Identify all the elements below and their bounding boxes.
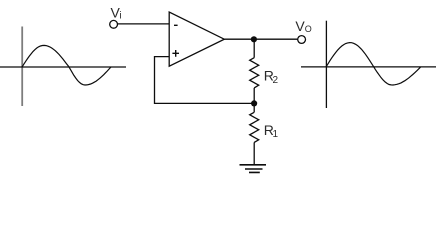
input waveform vertical axis xyxy=(21,27,23,107)
svg-text:O: O xyxy=(305,24,312,34)
resistor R2 xyxy=(250,58,259,88)
wire op-amp output to Vo xyxy=(224,38,297,40)
svg-text:1: 1 xyxy=(273,129,279,140)
wire feedback to non-inverting input xyxy=(155,57,255,104)
wire R2 to junction xyxy=(253,88,255,104)
op-amp U1 triangle xyxy=(169,12,224,66)
wire Vi to inverting input xyxy=(118,23,170,25)
input sine wave xyxy=(22,45,111,85)
output waveform horizontal axis xyxy=(301,66,436,68)
junction output node xyxy=(251,36,257,42)
node Vi terminal circle xyxy=(110,20,118,28)
svg-text:i: i xyxy=(119,10,121,21)
resistor R1 xyxy=(250,112,259,142)
output sine wave xyxy=(326,43,421,85)
junction feedback node xyxy=(251,100,257,106)
wire output node to R2 xyxy=(253,39,255,57)
output waveform vertical axis xyxy=(325,21,327,108)
input waveform horizontal axis xyxy=(0,66,126,68)
node Vo terminal circle xyxy=(298,36,306,44)
op-amp minus pin mark xyxy=(174,24,178,26)
wire junction to R1 xyxy=(253,103,255,112)
ground xyxy=(240,165,267,173)
wire R1 to ground xyxy=(253,142,255,164)
op-amp plus pin mark xyxy=(172,50,179,57)
svg-text:2: 2 xyxy=(273,75,279,86)
